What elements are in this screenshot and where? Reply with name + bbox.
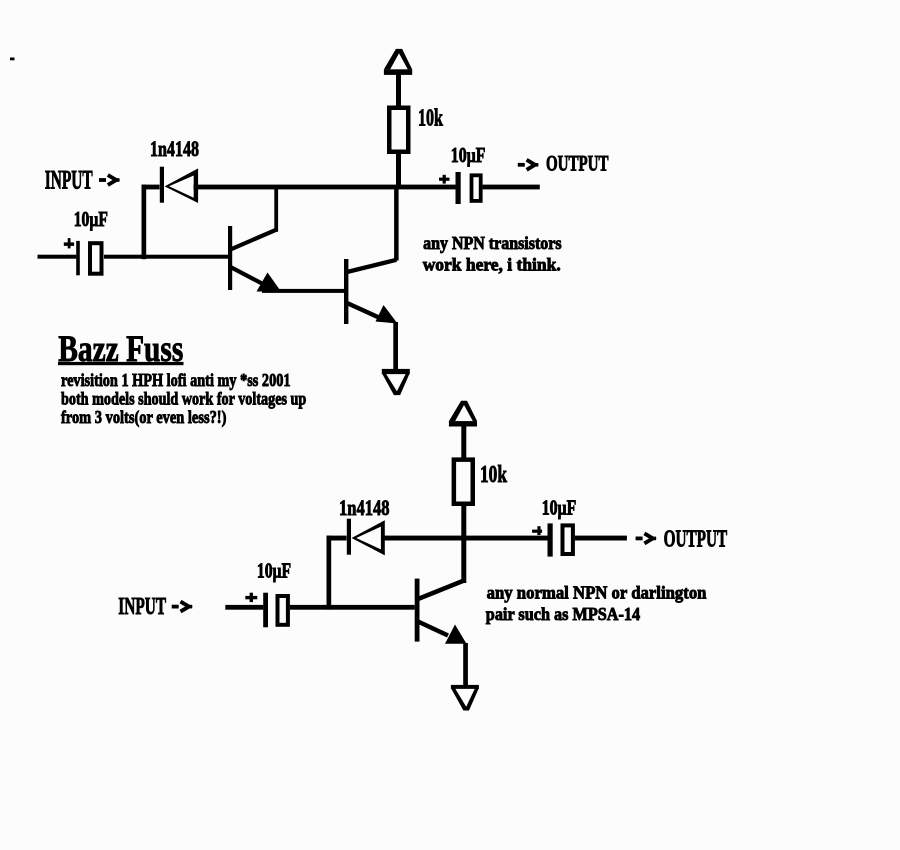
- plus sign of capacitor C4 (bottom output): [532, 526, 542, 535]
- wire vertical from diode cathode down to input node (bottom): [327, 536, 332, 610]
- ground symbol (top circuit): [382, 369, 410, 395]
- svg-text:OUTPUT: OUTPUT: [546, 151, 609, 176]
- capacitor C3: right plate (hollow): [276, 594, 290, 627]
- plus sign of capacitor C2 (top output): [439, 175, 450, 184]
- value label 10uF (C4): [542, 495, 577, 519]
- wire Q2 emitter down to ground: [393, 322, 398, 370]
- arrow -> before OUTPUT (bottom): [636, 533, 657, 543]
- wire Q2 collector up to node A: [394, 189, 399, 261]
- transistor Q3 emitter stroke with arrow: [418, 622, 467, 644]
- label INPUT (top circuit): [45, 164, 93, 194]
- note text: pair such as MPSA-14: [486, 604, 640, 624]
- wire node line from diode to output cap (bottom): [382, 536, 548, 541]
- transistor Q3 base bar: [415, 579, 420, 642]
- wire input left segment (bottom): [225, 605, 263, 610]
- svg-text:work here, i think.: work here, i think.: [423, 254, 561, 274]
- note line: revisition 1 HPH lofi anti my *ss 2001: [61, 370, 291, 390]
- value label 10k (bottom): [480, 461, 507, 488]
- value label 10uF (C1): [74, 207, 108, 231]
- svg-text:INPUT: INPUT: [45, 164, 93, 194]
- wire resistor R2 down through node B to Q3 collector: [461, 506, 466, 583]
- diode D2 1n4148 (bottom): cathode bar: [347, 519, 351, 555]
- wire Q1 collector up to main node line: [274, 186, 278, 232]
- plus sign of capacitor C3 (bottom input): [245, 593, 257, 602]
- svg-text:OUTPUT: OUTPUT: [664, 527, 728, 553]
- svg-text:10µF: 10µF: [542, 495, 577, 519]
- note text: any NPN transistors: [423, 233, 562, 253]
- svg-text:10µF: 10µF: [74, 207, 108, 231]
- svg-text:10µF: 10µF: [257, 559, 291, 583]
- wire input right segment (top) to Q1 base: [104, 255, 228, 259]
- svg-text:10k: 10k: [418, 106, 443, 132]
- transistor Q1 base bar: [228, 226, 232, 290]
- svg-text:10k: 10k: [480, 461, 507, 488]
- capacitor C4: right plate (hollow): [561, 523, 575, 556]
- title Bazz Fuss: [58, 329, 184, 370]
- wire input left segment (top): [38, 255, 77, 259]
- wire C2 to output (top): [483, 185, 540, 190]
- arrow -> before OUTPUT (top): [518, 160, 539, 170]
- capacitor C4: left plate: [548, 523, 553, 556]
- label INPUT (bottom circuit): [118, 594, 166, 620]
- capacitor C1: right plate (hollow): [88, 241, 104, 276]
- transistor Q2 base bar: [344, 259, 348, 324]
- svg-text:1n4148: 1n4148: [150, 136, 199, 161]
- value label 10uF (C2): [451, 143, 486, 167]
- wire C4 to output (bottom): [575, 536, 627, 541]
- transistor Q3 collector stroke: [418, 581, 464, 600]
- svg-text:1n4148: 1n4148: [339, 495, 390, 520]
- note line: from 3 volts(or even less?!): [61, 407, 226, 428]
- wire power to resistor R2: [461, 425, 466, 459]
- wire main node line left segment (top): [142, 185, 160, 190]
- value label 10uF (C3): [257, 559, 291, 583]
- wire input right segment (bottom) to Q3 base: [290, 605, 415, 610]
- power symbol V+ (top circuit): [384, 49, 412, 75]
- value label 10k (top): [418, 106, 443, 132]
- resistor R1 10k: [387, 106, 411, 155]
- wire vertical from diode cathode down to input node (top): [142, 185, 147, 260]
- note text: any normal NPN or darlington: [487, 583, 707, 603]
- capacitor C3: left plate: [263, 593, 268, 628]
- capacitor C2: right plate (hollow): [470, 173, 483, 202]
- svg-text:revisition 1 HPH lofi anti my: revisition 1 HPH lofi anti my *ss 2001: [61, 370, 291, 390]
- resistor R2 10k: [452, 457, 475, 506]
- capacitor C2: left plate: [456, 172, 461, 204]
- label OUTPUT (top circuit): [546, 151, 609, 176]
- wire Q1 emitter to Q2 base: [262, 289, 344, 293]
- wire Q3 emitter down to ground: [463, 643, 468, 686]
- value label 1n4148 (bottom diode): [339, 495, 390, 520]
- svg-text:any normal NPN or darlington: any normal NPN or darlington: [487, 583, 707, 603]
- stray dash mark top-left: [10, 58, 15, 61]
- transistor Q2 collector stroke: [347, 260, 396, 272]
- note text: work here, i think.: [423, 254, 561, 274]
- svg-text:10µF: 10µF: [451, 143, 486, 167]
- note line: both models should work for voltages up: [61, 389, 306, 409]
- value label 1n4148 (top diode): [150, 136, 199, 161]
- wire power to resistor R1: [396, 74, 401, 108]
- svg-text:INPUT: INPUT: [118, 594, 166, 620]
- transistor Q1 emitter stroke with arrow: [231, 267, 282, 292]
- plus sign of capacitor C1: [64, 238, 74, 248]
- label OUTPUT (bottom circuit): [664, 527, 728, 553]
- diode D1 1n4148 (top): cathode bar: [160, 167, 164, 203]
- wire main node line right segment (top) to output cap: [194, 185, 456, 190]
- transistor Q2 emitter stroke with arrow: [347, 303, 398, 324]
- transistor Q1 collector stroke: [231, 230, 277, 250]
- svg-text:pair such as MPSA-14: pair such as MPSA-14: [486, 604, 640, 624]
- svg-text:both models should work for vo: both models should work for voltages up: [61, 389, 306, 409]
- diode D1 triangle: [165, 168, 199, 203]
- svg-text:from 3 volts(or even less?!): from 3 volts(or even less?!): [61, 407, 226, 428]
- power symbol V+ (bottom circuit): [449, 401, 477, 427]
- ground symbol (bottom circuit): [451, 685, 479, 711]
- diode D2 triangle: [352, 520, 385, 555]
- arrow -> after INPUT (bottom): [172, 602, 193, 612]
- wire resistor R1 to node A: [396, 154, 401, 189]
- arrow -> after INPUT (top): [99, 175, 120, 185]
- capacitor C1: left plate: [76, 241, 80, 275]
- wire node line left of diode (bottom): [327, 536, 347, 541]
- svg-text:any NPN transistors: any NPN transistors: [423, 233, 562, 253]
